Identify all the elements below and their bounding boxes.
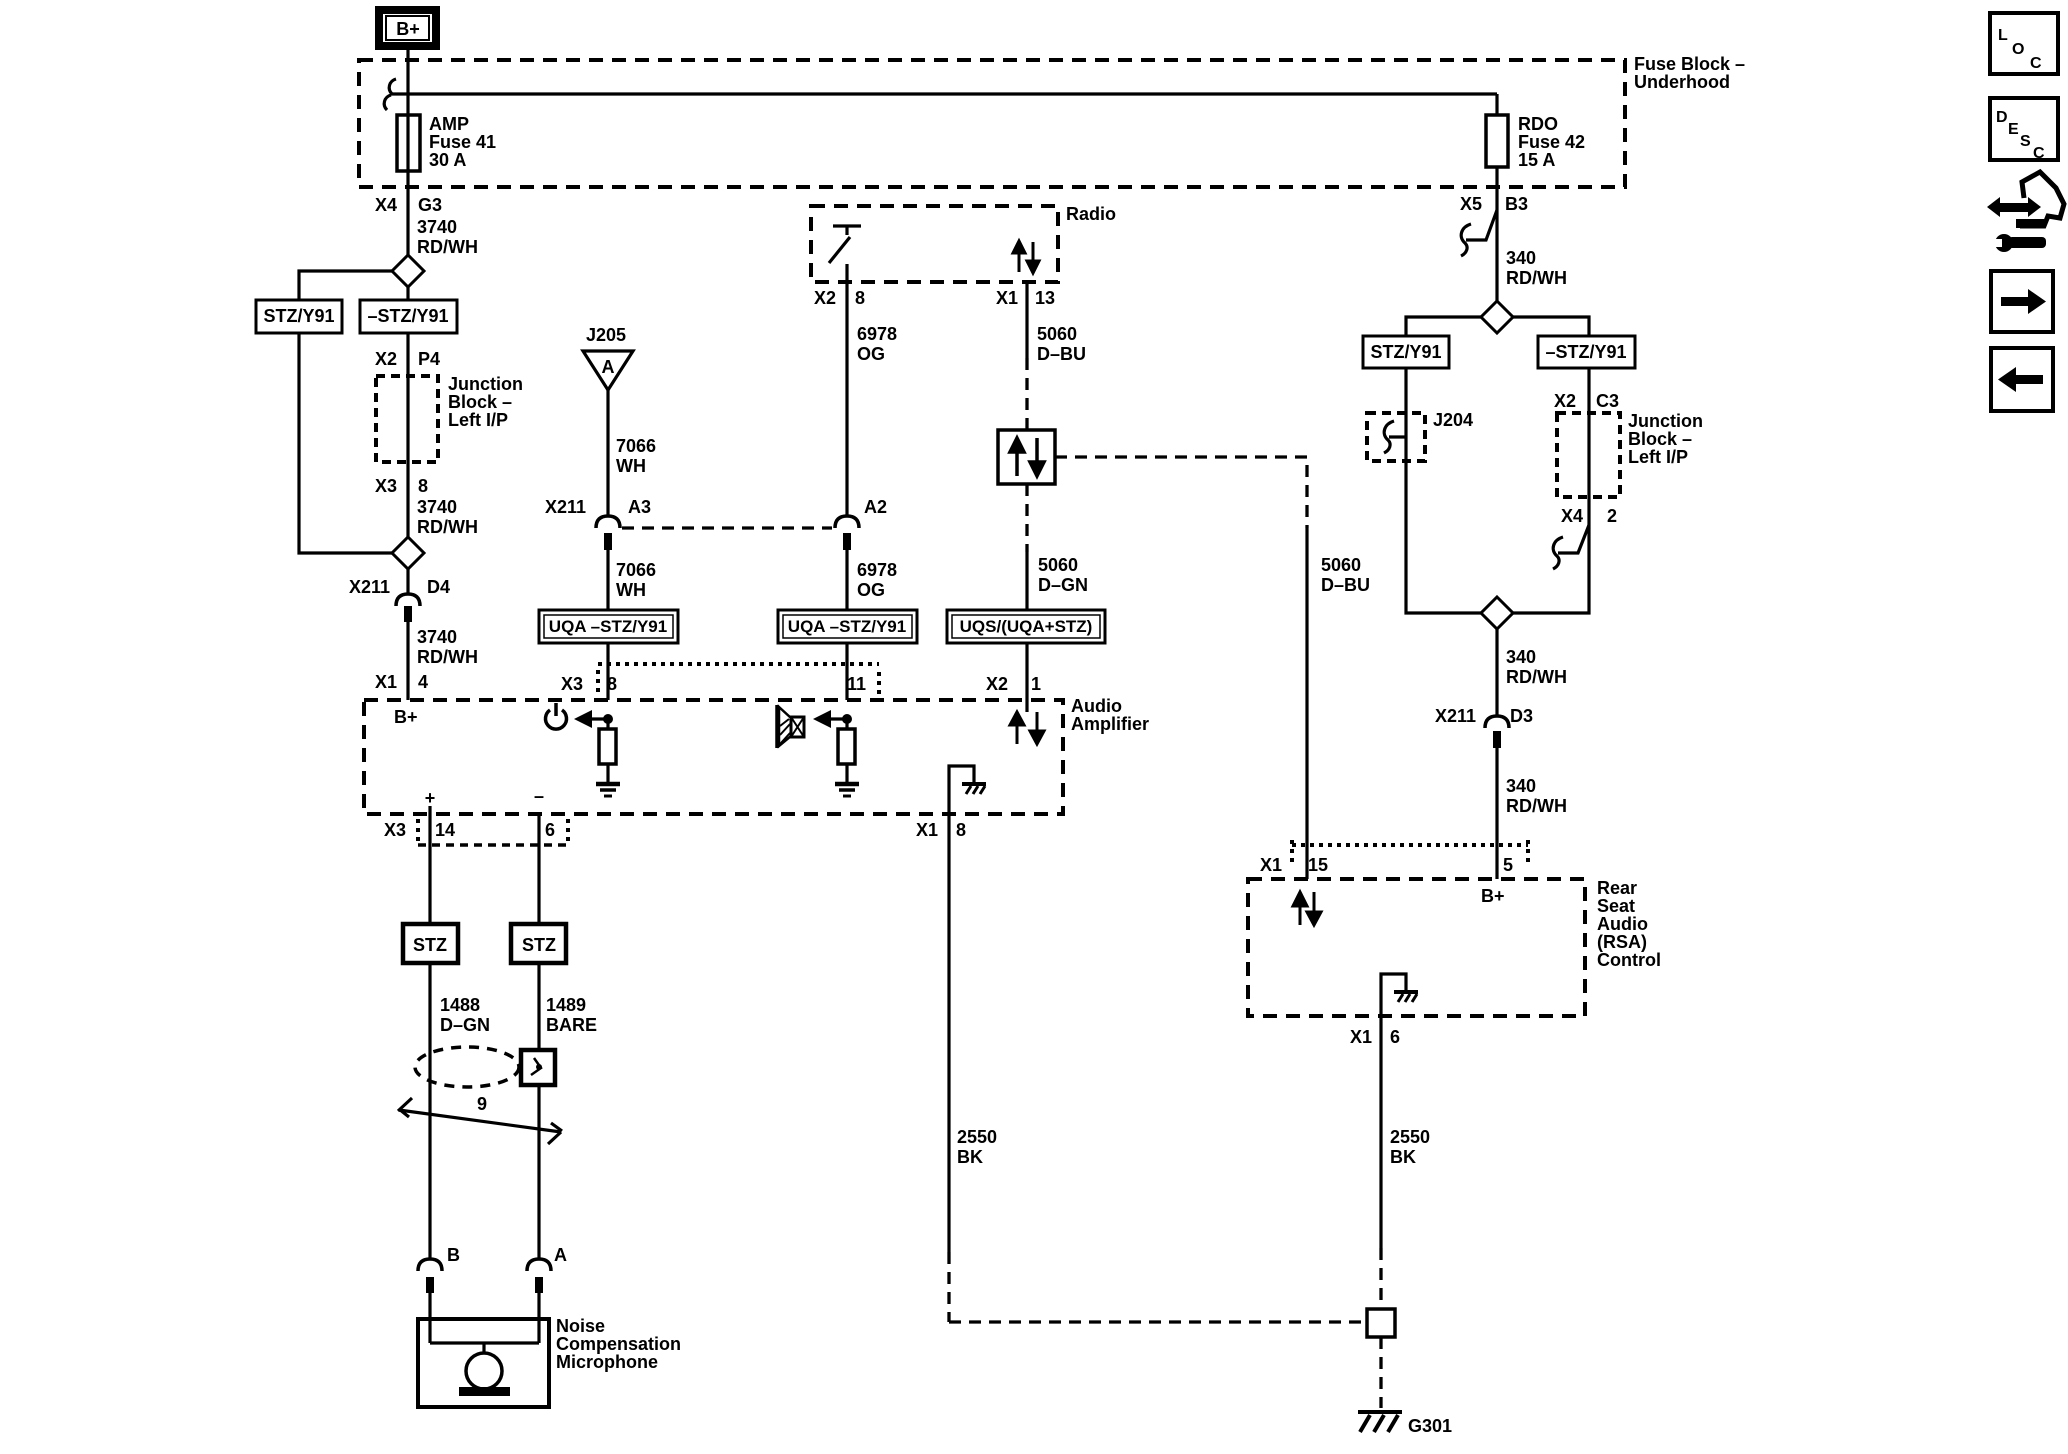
- wire into UQS box: [1025, 552, 1028, 610]
- noise compensation microphone box: [418, 1319, 549, 1407]
- svg-text:Microphone: Microphone: [556, 1352, 658, 1372]
- connector J204 dashed box: [1367, 413, 1425, 461]
- connector pin B dome and terminal: [418, 1259, 442, 1293]
- radio internal switch: [829, 226, 861, 263]
- wire label 340 RD/WH top: [1506, 248, 1567, 288]
- svg-text:9: 9: [477, 1094, 487, 1114]
- svg-text:S: S: [2020, 133, 2031, 150]
- dashed wire link box down: [1025, 484, 1028, 552]
- svg-text:8: 8: [855, 288, 865, 308]
- wire label 5060 D-BU right branch: [1321, 555, 1370, 595]
- svg-text:RDO: RDO: [1518, 114, 1558, 134]
- svg-text:X211: X211: [545, 497, 586, 517]
- net name box UQA -STZ/Y91 right: [778, 610, 917, 643]
- svg-text:RD/WH: RD/WH: [1506, 667, 1567, 687]
- wire amplifier minus to STZ: [537, 814, 540, 924]
- svg-text:30 A: 30 A: [429, 150, 466, 170]
- rear seat audio control dashed box: [1248, 879, 1585, 1016]
- earth ground left: [596, 784, 620, 796]
- inline splice curl on bus: [384, 79, 396, 110]
- svg-text:4: 4: [418, 672, 428, 692]
- net name box STZ/Y91: [256, 300, 342, 333]
- wire diamond 4 to connector D3: [1495, 629, 1498, 716]
- wire label 2550 BK right: [1390, 1127, 1430, 1167]
- legend box DESC: [1990, 98, 2058, 162]
- svg-text:5060: 5060: [1038, 555, 1078, 575]
- svg-text:STZ: STZ: [413, 935, 447, 955]
- fuse block underhood dashed box: [359, 60, 1625, 187]
- speaker symbol: [777, 705, 804, 748]
- shield termination box: [521, 1050, 555, 1085]
- inline connector box on ground run: [1367, 1309, 1395, 1337]
- amplifier up down arrows at X2-1: [1010, 700, 1044, 744]
- wire label 5060 D-GN: [1038, 555, 1088, 595]
- wire antenna to connector A3: [606, 390, 609, 516]
- label B+ inside amplifier: [394, 707, 418, 727]
- svg-text:L: L: [1998, 27, 2008, 44]
- svg-text:BARE: BARE: [546, 1015, 597, 1035]
- resistor left in amplifier: [599, 719, 616, 783]
- wire STZ left to microphone B: [428, 963, 431, 1259]
- svg-text:RD/WH: RD/WH: [417, 647, 478, 667]
- dashed wire to G301: [1379, 1337, 1382, 1408]
- net name box UQS/(UQA+STZ): [947, 610, 1105, 643]
- splice diamond node 2: [392, 537, 424, 569]
- net name box -STZ/Y91 right side: [1538, 336, 1635, 368]
- svg-text:X3: X3: [384, 820, 406, 840]
- svg-text:X1: X1: [375, 672, 397, 692]
- svg-text:B: B: [447, 1245, 460, 1265]
- svg-text:3740: 3740: [417, 217, 457, 237]
- svg-text:6: 6: [1390, 1027, 1400, 1047]
- wire label 7066 WH lower: [616, 560, 656, 600]
- svg-text:BK: BK: [957, 1147, 983, 1167]
- connector X211 pin D4 dome and terminal: [396, 594, 420, 622]
- svg-text:Junction: Junction: [448, 374, 523, 394]
- svg-text:OG: OG: [857, 580, 885, 600]
- svg-text:E: E: [2008, 121, 2019, 138]
- dashed wire link box to right branch: [1055, 457, 1307, 528]
- pin label X2 8: [814, 288, 865, 308]
- svg-text:2: 2: [1607, 506, 1617, 526]
- svg-text:Left I/P: Left I/P: [1628, 447, 1688, 467]
- wire radio X1-13 solid then dashed: [1025, 282, 1028, 430]
- svg-text:X5: X5: [1460, 194, 1482, 214]
- label Fuse Block Underhood: [1634, 54, 1745, 92]
- bus wire from B+ feed to fuse 42: [391, 92, 1497, 95]
- svg-text:X2: X2: [375, 349, 397, 369]
- connector J204 symbol: [1384, 421, 1406, 453]
- svg-text:6: 6: [545, 820, 555, 840]
- svg-text:Block –: Block –: [448, 392, 512, 412]
- svg-text:RD/WH: RD/WH: [417, 517, 478, 537]
- svg-text:2550: 2550: [1390, 1127, 1430, 1147]
- net name box -STZ/Y91: [360, 300, 457, 333]
- connector pin A dome and terminal: [527, 1259, 551, 1293]
- dotted pin tie row X1-15 to 5: [1292, 840, 1528, 866]
- wire diamond to STZ/Y91 branch: [299, 271, 392, 300]
- svg-text:Underhood: Underhood: [1634, 72, 1730, 92]
- wire label 3740 RD/WH: [417, 497, 478, 537]
- svg-text:D3: D3: [1510, 706, 1533, 726]
- wire amplifier X1-8 ground run: [949, 814, 1367, 1322]
- wire STZ/Y91 to diamond 2: [299, 333, 392, 553]
- svg-text:X1: X1: [1260, 855, 1282, 875]
- connector X211 pin A3 dome and terminal: [596, 516, 620, 550]
- svg-text:2550: 2550: [957, 1127, 997, 1147]
- wire RSA X1-6 ground run: [1379, 1016, 1382, 1309]
- svg-text:D–GN: D–GN: [1038, 575, 1088, 595]
- wire diamond 3 to STZ/Y91 branch: [1406, 317, 1481, 336]
- wire label 5060 D-BU: [1037, 324, 1086, 364]
- wire label 340 RD/WH lower: [1506, 776, 1567, 816]
- label plus: [425, 788, 436, 808]
- wire label 1489 BARE: [546, 995, 597, 1035]
- wire 5060 D-BU down to RSA: [1305, 528, 1308, 879]
- pin label X3 8: [375, 476, 428, 496]
- svg-text:–STZ/Y91: –STZ/Y91: [1545, 342, 1626, 362]
- wire left branch through J204: [1406, 368, 1481, 613]
- svg-text:14: 14: [435, 820, 455, 840]
- svg-text:15 A: 15 A: [1518, 150, 1555, 170]
- svg-text:B3: B3: [1505, 194, 1528, 214]
- svg-text:RD/WH: RD/WH: [1506, 268, 1567, 288]
- svg-text:5: 5: [1503, 855, 1513, 875]
- pin label X1 6: [1350, 1027, 1400, 1047]
- svg-text:Rear: Rear: [1597, 878, 1637, 898]
- chassis ground inside RSA: [1381, 974, 1418, 1016]
- svg-text:Fuse Block –: Fuse Block –: [1634, 54, 1745, 74]
- svg-text:C: C: [2033, 145, 2045, 162]
- svg-text:D–BU: D–BU: [1037, 344, 1086, 364]
- svg-text:B+: B+: [396, 19, 420, 39]
- wire diamond 2 to connector D4: [406, 569, 409, 594]
- svg-text:1489: 1489: [546, 995, 586, 1015]
- svg-text:6978: 6978: [857, 324, 897, 344]
- wire label 6978 OG: [857, 324, 897, 364]
- battery feed symbol B+: [379, 10, 436, 46]
- radio dashed box: [811, 206, 1058, 282]
- svg-text:B+: B+: [1481, 886, 1505, 906]
- svg-text:G3: G3: [418, 195, 442, 215]
- junction block left I/P dashed box right side: [1557, 413, 1620, 497]
- legend box LOC: [1990, 13, 2058, 74]
- svg-text:STZ: STZ: [522, 935, 556, 955]
- label Radio: [1066, 204, 1116, 224]
- wire A2 to UQA box: [845, 550, 848, 610]
- svg-text:X4: X4: [375, 195, 397, 215]
- legend box arrow left: [1991, 348, 2053, 411]
- shield ellipse: [415, 1047, 519, 1087]
- svg-text:(RSA): (RSA): [1597, 932, 1647, 952]
- arrow to power symbol with junction dot: [574, 710, 613, 728]
- svg-text:Audio: Audio: [1597, 914, 1648, 934]
- svg-text:11: 11: [847, 674, 866, 694]
- svg-text:Compensation: Compensation: [556, 1334, 681, 1354]
- wire D3 to RSA pin 5: [1495, 748, 1498, 879]
- audio amplifier dashed box: [364, 700, 1063, 814]
- net name box STZ right: [511, 924, 566, 963]
- svg-text:Fuse 42: Fuse 42: [1518, 132, 1585, 152]
- pin label X2 P4: [375, 349, 440, 369]
- svg-text:BK: BK: [1390, 1147, 1416, 1167]
- svg-text:J205: J205: [586, 325, 626, 345]
- svg-text:1: 1: [1031, 674, 1041, 694]
- connector label A2: [864, 497, 887, 517]
- pin label X2 C3: [1554, 391, 1619, 411]
- svg-text:15: 15: [1308, 855, 1328, 875]
- resistor right in amplifier: [838, 719, 855, 783]
- wire B+ to fuse 41: [406, 48, 409, 255]
- fuse AMP Fuse 41 30 A: [397, 114, 496, 171]
- net name box UQA -STZ/Y91 left: [539, 610, 678, 643]
- arrow to speaker with junction dot: [813, 710, 852, 728]
- svg-text:5060: 5060: [1037, 324, 1077, 344]
- wire D4 to amplifier pin X1 4: [406, 622, 409, 700]
- pin label X3 14 6: [384, 820, 555, 840]
- svg-text:Fuse 41: Fuse 41: [429, 132, 496, 152]
- svg-text:O: O: [2012, 41, 2024, 58]
- splice diamond node 3: [1481, 301, 1513, 333]
- wire right branch through junction block: [1513, 368, 1589, 613]
- wire A3 to UQA box: [606, 550, 609, 610]
- pin label X1 8: [916, 820, 966, 840]
- earth ground right: [835, 784, 859, 796]
- svg-text:A: A: [554, 1245, 567, 1265]
- chassis ground inside amplifier: [949, 766, 986, 814]
- legend icon hand with arrow and wrench: [1987, 172, 2064, 252]
- wire STZ right to microphone A: [537, 963, 540, 1259]
- svg-text:C3: C3: [1596, 391, 1619, 411]
- svg-text:8: 8: [956, 820, 966, 840]
- connector label X211 A3: [545, 497, 651, 517]
- svg-text:WH: WH: [616, 456, 646, 476]
- wires UQA boxes to amplifier: [608, 643, 1027, 700]
- dotted pin tie row 14 to 6: [418, 819, 568, 846]
- label Noise Compensation Microphone: [556, 1316, 681, 1372]
- label Junction Block Left I/P: [448, 374, 523, 430]
- wires into microphone: [430, 1293, 539, 1343]
- svg-text:X211: X211: [349, 577, 390, 597]
- svg-text:7066: 7066: [616, 560, 656, 580]
- svg-text:X3: X3: [561, 674, 583, 694]
- power on symbol: [546, 703, 567, 729]
- svg-text:OG: OG: [857, 344, 885, 364]
- svg-text:X2: X2: [986, 674, 1008, 694]
- svg-text:1488: 1488: [440, 995, 480, 1015]
- connector label X211 D4: [349, 577, 450, 597]
- data link box with up down arrows: [998, 430, 1055, 484]
- wire label 6978 OG lower: [857, 560, 897, 600]
- svg-text:13: 13: [1035, 288, 1055, 308]
- svg-text:D–BU: D–BU: [1321, 575, 1370, 595]
- connector clip at X4: [1553, 525, 1589, 569]
- svg-text:–STZ/Y91: –STZ/Y91: [367, 306, 448, 326]
- fuse RDO Fuse 42 15 A: [1486, 94, 1585, 301]
- svg-text:G301: G301: [1408, 1416, 1452, 1436]
- label 9: [477, 1094, 487, 1114]
- wire amplifier plus to STZ: [428, 806, 431, 924]
- svg-text:RD/WH: RD/WH: [1506, 796, 1567, 816]
- wire label 1488 D-GN: [440, 995, 490, 1035]
- wire label 7066 WH: [616, 436, 656, 476]
- wire diamond to -STZ/Y91: [406, 287, 409, 300]
- pin label X5 B3: [1460, 194, 1528, 214]
- svg-text:Noise: Noise: [556, 1316, 605, 1336]
- wire label 3740 RD/WH: [417, 627, 478, 667]
- svg-text:3740: 3740: [417, 497, 457, 517]
- svg-text:P4: P4: [418, 349, 440, 369]
- svg-text:3740: 3740: [417, 627, 457, 647]
- wire -STZ/Y91 through junction block: [406, 333, 409, 537]
- svg-text:UQA –STZ/Y91: UQA –STZ/Y91: [549, 617, 667, 636]
- pin label X1 4: [375, 672, 428, 692]
- svg-text:X1: X1: [996, 288, 1018, 308]
- svg-text:340: 340: [1506, 647, 1536, 667]
- svg-text:A: A: [602, 357, 615, 377]
- wire label 3740 RD/WH: [417, 217, 478, 257]
- svg-text:X1: X1: [916, 820, 938, 840]
- pin labels X3 8 11 X2 1: [561, 674, 1041, 694]
- splice diamond node 4: [1481, 597, 1513, 629]
- svg-text:Radio: Radio: [1066, 204, 1116, 224]
- svg-text:J204: J204: [1433, 410, 1473, 430]
- pin labels X1 15 5: [1260, 855, 1513, 875]
- label B+ inside RSA: [1481, 886, 1505, 906]
- RSA up down arrows: [1293, 892, 1321, 925]
- splice diamond node: [392, 255, 424, 287]
- ground G301: [1358, 1412, 1452, 1436]
- svg-text:340: 340: [1506, 776, 1536, 796]
- svg-text:STZ/Y91: STZ/Y91: [1370, 342, 1441, 362]
- svg-text:X4: X4: [1561, 506, 1583, 526]
- label Audio Amplifier: [1071, 696, 1149, 734]
- radio internal up down arrows: [1013, 241, 1039, 273]
- svg-text:D4: D4: [427, 577, 450, 597]
- dotted pin tie row X3-8 to 11: [598, 664, 879, 697]
- svg-text:+: +: [425, 788, 436, 808]
- svg-text:Seat: Seat: [1597, 896, 1635, 916]
- label minus: [534, 786, 544, 806]
- svg-text:Left I/P: Left I/P: [448, 410, 508, 430]
- svg-text:B+: B+: [394, 707, 418, 727]
- wire label 340 RD/WH middle: [1506, 647, 1567, 687]
- connector X211 pin A2 dome and terminal: [835, 516, 859, 550]
- svg-text:X1: X1: [1350, 1027, 1372, 1047]
- junction block left I/P dashed box: [376, 376, 438, 462]
- svg-text:5060: 5060: [1321, 555, 1361, 575]
- net name box STZ left: [403, 924, 458, 963]
- svg-text:Control: Control: [1597, 950, 1661, 970]
- twisted pair crossing mark: [398, 1098, 562, 1144]
- wire radio X2-8 to connector A2: [845, 264, 848, 516]
- connector label A: [554, 1245, 567, 1265]
- svg-text:STZ/Y91: STZ/Y91: [263, 306, 334, 326]
- svg-text:Block –: Block –: [1628, 429, 1692, 449]
- svg-text:WH: WH: [616, 580, 646, 600]
- svg-text:X2: X2: [1554, 391, 1576, 411]
- svg-text:7066: 7066: [616, 436, 656, 456]
- svg-text:Amplifier: Amplifier: [1071, 714, 1149, 734]
- label J204: [1433, 410, 1473, 430]
- svg-text:X3: X3: [375, 476, 397, 496]
- svg-text:6978: 6978: [857, 560, 897, 580]
- svg-text:C: C: [2030, 55, 2042, 72]
- connector X211 pin D3 dome and terminal: [1485, 716, 1509, 748]
- svg-text:X211: X211: [1435, 706, 1476, 726]
- label Rear Seat Audio RSA Control: [1597, 878, 1661, 970]
- svg-text:8: 8: [418, 476, 428, 496]
- legend box arrow right: [1991, 271, 2053, 332]
- svg-text:A2: A2: [864, 497, 887, 517]
- svg-text:UQA –STZ/Y91: UQA –STZ/Y91: [788, 617, 906, 636]
- svg-text:X2: X2: [814, 288, 836, 308]
- pin label X4 G3: [375, 195, 442, 215]
- svg-text:D: D: [1996, 109, 2008, 126]
- connector label B: [447, 1245, 460, 1265]
- svg-text:8: 8: [607, 674, 617, 694]
- svg-text:RD/WH: RD/WH: [417, 237, 478, 257]
- pin label X1 13: [996, 288, 1055, 308]
- svg-text:–: –: [534, 786, 544, 806]
- svg-text:340: 340: [1506, 248, 1536, 268]
- svg-text:Audio: Audio: [1071, 696, 1122, 716]
- connector label X211 D3: [1435, 706, 1533, 726]
- antenna J205: [583, 325, 633, 390]
- svg-text:A3: A3: [628, 497, 651, 517]
- svg-text:AMP: AMP: [429, 114, 469, 134]
- wire label 2550 BK center: [957, 1127, 997, 1167]
- label Junction Block Left I/P right side: [1628, 411, 1703, 467]
- svg-text:D–GN: D–GN: [440, 1015, 490, 1035]
- pin label X4 2: [1561, 506, 1617, 526]
- svg-text:Junction: Junction: [1628, 411, 1703, 431]
- dashed connector tie A3 to A2: [622, 526, 832, 529]
- net name box STZ/Y91 right side: [1363, 336, 1449, 368]
- svg-text:UQS/(UQA+STZ): UQS/(UQA+STZ): [960, 617, 1093, 636]
- wire diamond 3 to -STZ/Y91 branch: [1513, 317, 1589, 336]
- connector clip at X5: [1461, 210, 1497, 256]
